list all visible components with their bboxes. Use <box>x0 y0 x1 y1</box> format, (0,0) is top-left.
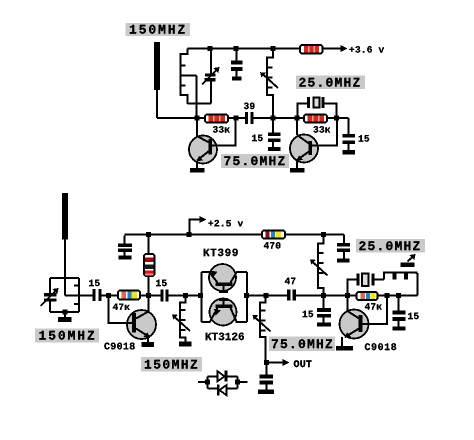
node varactor dot right <box>235 380 240 385</box>
resistor R6 470 <box>262 231 285 239</box>
varactor pair wires <box>198 377 248 389</box>
node row dot j <box>321 293 326 298</box>
label 47k R4 <box>113 304 130 310</box>
node rail dot c <box>146 232 151 237</box>
capacitor C12 OUT to ground <box>260 363 274 390</box>
antenna ANT1 <box>154 42 160 118</box>
resistor R2 33k <box>304 115 327 123</box>
resistor R5 vertical <box>144 236 155 296</box>
node top rail dot A <box>208 46 213 51</box>
resistor R7 47k <box>357 292 378 300</box>
node top rail dot C <box>271 46 276 51</box>
ground L4 <box>179 342 192 347</box>
wire top rail VCC <box>188 48 343 50</box>
label KT399 <box>204 249 238 256</box>
inductor L3 tank coil <box>74 278 79 312</box>
node row dot i <box>264 293 269 298</box>
label 150MHZ center <box>141 357 202 372</box>
transistor Q4 C9018 right <box>340 296 388 347</box>
label 150MHZ left <box>35 329 99 343</box>
antenna ANT2 <box>62 193 68 296</box>
node base row dot E <box>234 116 239 121</box>
transistor Q1 <box>189 118 236 168</box>
node base row dot D <box>195 116 200 121</box>
capacitor C4 15 to ground <box>252 118 280 147</box>
label 75.0MHZ top <box>221 154 289 168</box>
node row dot g left of pair <box>198 293 203 298</box>
node base row dot G <box>295 116 300 121</box>
node tank2 dot <box>63 310 68 315</box>
label 25.0MHZ top <box>296 76 365 90</box>
capacitor C10 15 series <box>156 280 169 302</box>
arrow OUT <box>267 359 312 367</box>
ground Q3 <box>142 342 155 347</box>
ground C2 <box>232 77 242 81</box>
node top rail dot B <box>234 46 239 51</box>
ground tank2 <box>58 312 72 322</box>
resistor R4 47k <box>118 291 140 300</box>
capacitor C2 to ground <box>231 49 243 77</box>
node row dot h right of pair <box>244 293 249 298</box>
capacitor C8 decoupling to ground <box>118 236 132 256</box>
wire base row <box>157 117 349 119</box>
node row dot m <box>396 293 401 298</box>
label 47k R7 <box>365 303 382 309</box>
ground Q4 <box>336 346 353 351</box>
KT pair frame wires <box>202 272 248 322</box>
wire main row y295 <box>65 295 418 297</box>
diode D2 varactor left-pointing <box>217 385 227 396</box>
inductor L2 variable <box>260 49 278 119</box>
capacitor C6 variable trimmer <box>41 288 59 306</box>
supply arrow +3.6v <box>341 45 385 53</box>
ground C15 <box>393 327 406 331</box>
node varactor dot left <box>205 380 210 385</box>
label 25.0MHZ bottom <box>356 239 425 253</box>
ground Q2 <box>290 168 305 173</box>
transistor Q3 C9018 left <box>109 296 157 343</box>
node base row dot F <box>271 116 276 121</box>
capacitor C14 15 to ground <box>303 296 331 323</box>
label KT3126 <box>206 333 244 340</box>
node row dot a <box>106 293 111 298</box>
ground C5 <box>343 150 356 155</box>
capacitor C5 15 to ground <box>343 118 370 150</box>
capacitor C7 15 series <box>89 280 101 301</box>
resistor R3 <box>300 45 323 54</box>
node OUT dot <box>264 360 269 365</box>
inductor L5 variable to OUT <box>253 296 271 363</box>
inductor L7 horizontal variable <box>384 254 418 296</box>
capacitor C11 between bases <box>219 290 228 305</box>
label C9018 left <box>104 343 134 350</box>
node row dot f <box>183 293 188 298</box>
node row dot b <box>146 293 151 298</box>
transistor Q6 KT3126 <box>210 299 237 326</box>
transistor Q2 <box>290 118 337 168</box>
inductor L4 variable to ground <box>172 296 190 342</box>
label 75.0MHZ bottom <box>269 337 335 352</box>
capacitor C9 rail end to ground <box>337 235 350 259</box>
ground C8 <box>119 256 132 260</box>
supply arrow +2.5v <box>190 216 244 235</box>
inductor L1 tank coil with tap <box>181 49 197 119</box>
ground C4 <box>268 147 281 151</box>
label 470 <box>264 242 281 248</box>
wire rail +2.5v <box>125 234 345 236</box>
label 33k R2 <box>313 126 330 132</box>
diode D1 varactor right-pointing <box>218 371 228 382</box>
capacitor C15 15 to ground <box>393 296 419 327</box>
node row dot l <box>385 293 390 298</box>
transistor Q5 KT399 <box>209 264 237 291</box>
resistor R1 33k <box>205 115 228 123</box>
label 33k R1 <box>213 126 230 132</box>
capacitor C1 variable trimmer <box>202 49 220 104</box>
ground Q1 <box>190 168 205 173</box>
ground C14 <box>317 323 331 327</box>
wire tank bottom <box>188 103 212 105</box>
crystal X1 <box>298 97 337 118</box>
node base row dot H <box>334 116 339 121</box>
node rail dot d <box>187 232 192 237</box>
capacitor C3 39 <box>244 103 255 124</box>
capacitor C13 47 series <box>285 278 296 301</box>
ground C12 <box>258 390 274 395</box>
node rail dot e <box>321 232 326 237</box>
inductor L6 variable rail to row <box>310 235 328 296</box>
crystal X2 <box>348 274 385 296</box>
tank2 loop wires <box>50 278 79 312</box>
node row dot k <box>345 293 350 298</box>
ground C9 <box>337 259 350 263</box>
label C9018 right <box>365 343 396 350</box>
label 150MHZ top <box>126 23 191 36</box>
